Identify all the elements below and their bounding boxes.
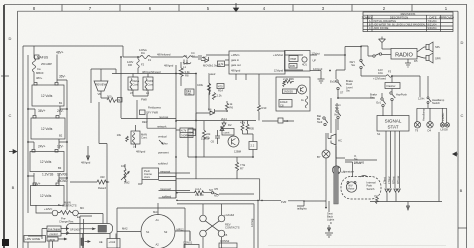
outer right border xyxy=(466,5,468,248)
dcdc regulator box xyxy=(276,77,310,111)
svg-text:STAT: STAT xyxy=(387,125,398,130)
svg-text:rescoss: rescoss xyxy=(159,115,169,119)
transistor Q1 xyxy=(222,129,242,154)
radio feed switch xyxy=(361,46,391,57)
throttle pot resistor 433 xyxy=(70,175,109,217)
svg-text:2.2: 2.2 xyxy=(251,144,255,148)
svg-text:9/30/04: 9/30/04 xyxy=(428,26,437,30)
throttle potentiometer xyxy=(121,164,130,185)
svg-text:7.5k: 7.5k xyxy=(240,163,246,167)
svg-text:DESCRIPTION: DESCRIPTION xyxy=(390,15,408,19)
long vertical bus wires xyxy=(121,57,196,198)
svg-text:7/31/04: 7/31/04 xyxy=(428,19,437,23)
svg-text:comt: comt xyxy=(224,130,230,134)
svg-text:MAFUS: MAFUS xyxy=(37,56,48,60)
speaker SPR xyxy=(417,53,441,63)
svg-text:ADD WATER TNK, B/L LEADS & CAB: ADD WATER TNK, B/L LEADS & CABLE WAND/SE… xyxy=(374,23,426,27)
svg-text:+CA1&6: +CA1&6 xyxy=(224,213,235,217)
ground under radio xyxy=(405,59,418,67)
svg-text:Flasher: Flasher xyxy=(387,84,396,88)
small component A.B xyxy=(262,118,294,123)
dcdc regulator box xyxy=(285,47,362,72)
controller box U1 xyxy=(206,51,303,80)
svg-text:D2: D2 xyxy=(228,123,232,127)
right center arrow xyxy=(453,152,458,156)
small component R13 top xyxy=(258,74,267,121)
top center arrow xyxy=(234,3,239,12)
svg-text:RADIO: RADIO xyxy=(395,52,413,58)
svg-text:Ca: Ca xyxy=(37,67,41,71)
svg-text:2k14: 2k14 xyxy=(221,117,227,121)
svg-text:12V/0B: 12V/0B xyxy=(57,172,67,176)
connector CONS1 xyxy=(183,232,199,248)
svg-text:HazPush: HazPush xyxy=(396,93,407,97)
relay contact NO R5 xyxy=(204,187,219,198)
svg-text:vertical: vertical xyxy=(158,135,167,139)
svg-text:12Vout: 12Vout xyxy=(312,52,321,56)
svg-text:Switch: Switch xyxy=(367,187,375,191)
svg-text:taillights: taillights xyxy=(297,206,307,210)
svg-text:48VconNFused: 48VconNFused xyxy=(142,70,161,74)
svg-text:12 Volts: 12 Volts xyxy=(40,194,52,198)
resistor 1k R6 xyxy=(225,101,233,112)
svg-text:4.2k: 4.2k xyxy=(240,121,246,125)
svg-text:LTfrnt: LTfrnt xyxy=(383,177,387,184)
wire FVR xyxy=(176,194,304,204)
top zone ticks xyxy=(62,5,412,12)
svg-text:48V+: 48V+ xyxy=(36,76,43,80)
svg-text:4.7k: 4.7k xyxy=(181,129,187,133)
diode pair 2k14 xyxy=(220,117,232,131)
svg-text:CONTACTS: CONTACTS xyxy=(62,204,77,208)
scan edge left line xyxy=(3,5,5,248)
svg-text:R14: R14 xyxy=(218,89,223,93)
svg-text:250 AMP: 250 AMP xyxy=(41,62,52,66)
svg-text:470: 470 xyxy=(218,84,223,88)
svg-text:100k: 100k xyxy=(197,83,203,87)
svg-text:4.7k: 4.7k xyxy=(218,62,224,66)
svg-text:RTrear: RTrear xyxy=(396,176,400,184)
svg-text:12Vgnd: 12Vgnd xyxy=(313,67,323,71)
svg-text:D5: D5 xyxy=(414,59,418,63)
svg-text:A A A: A A A xyxy=(195,187,201,191)
svg-text:R6: R6 xyxy=(230,106,234,110)
resistor 7.5k R7 xyxy=(176,157,260,200)
svg-text:Headlamp: Headlamp xyxy=(422,108,426,121)
svg-text:Cont.: Cont. xyxy=(141,136,148,140)
wire lower parallel xyxy=(177,203,254,205)
svg-text:B: B xyxy=(369,23,371,27)
connector CA2 box xyxy=(99,234,120,248)
transformer V1 xyxy=(183,51,205,69)
diode DR 1W5 xyxy=(354,154,365,164)
motor enclosure box xyxy=(117,208,185,248)
svg-text:CONTACTS: CONTACTS xyxy=(225,226,240,230)
svg-text:rrespswt: rrespswt xyxy=(160,169,170,173)
bus wire left xyxy=(27,55,29,213)
svg-text:B3: B3 xyxy=(58,166,62,170)
svg-text:12Vsig: 12Vsig xyxy=(250,218,254,227)
svg-text:D: D xyxy=(461,40,464,45)
svg-text:DR: DR xyxy=(128,63,132,67)
radio U2 xyxy=(391,49,417,60)
node 48V+ xyxy=(56,51,64,83)
svg-text:ctors: ctors xyxy=(144,175,150,179)
capacitor C1 box xyxy=(243,134,258,157)
svg-text:R05: R05 xyxy=(249,127,254,131)
resistor 2.2k R11 xyxy=(212,93,222,100)
fuse F1 xyxy=(140,56,151,59)
battery B3 xyxy=(28,139,67,172)
node 48VconNFused xyxy=(112,64,196,74)
fuse F8 main fuse xyxy=(33,46,53,82)
svg-text:12 Volts: 12 Volts xyxy=(41,127,53,131)
svg-text:S1: S1 xyxy=(146,230,150,234)
svg-text:F3: F3 xyxy=(388,70,392,74)
svg-text:LTrear: LTrear xyxy=(387,176,391,184)
bottom-left black mark xyxy=(2,239,9,246)
svg-text:1500uF: 1500uF xyxy=(201,137,210,141)
svg-text:Sw: Sw xyxy=(351,63,355,67)
svg-text:8/21/04: 8/21/04 xyxy=(428,23,437,27)
svg-text:Cont: Cont xyxy=(133,83,139,87)
svg-text:4D1: 4D1 xyxy=(302,63,307,67)
svg-text:+12Vout: +12Vout xyxy=(273,53,283,57)
brake switch xyxy=(370,93,386,117)
svg-text:15k R9: 15k R9 xyxy=(195,193,204,197)
svg-text:R8: R8 xyxy=(185,74,189,78)
antenna xyxy=(379,37,392,50)
field coil FW8 xyxy=(140,98,162,115)
svg-text:gate out: gate out xyxy=(231,63,241,67)
svg-text:D4: D4 xyxy=(428,128,432,132)
diode pair D3 xyxy=(385,189,400,192)
motor MA1 xyxy=(117,203,190,248)
fuse F2 xyxy=(127,57,145,74)
svg-text:REV: REV xyxy=(367,15,373,19)
relay MAN cont xyxy=(117,125,148,154)
left zone ticks xyxy=(1,75,9,77)
svg-text:7808: 7808 xyxy=(290,57,296,61)
svg-text:control: control xyxy=(50,232,58,236)
svg-text:22k: 22k xyxy=(206,132,211,136)
capacitor C4 xyxy=(199,55,205,60)
svg-text:Sw: Sw xyxy=(346,89,350,93)
wires around relays xyxy=(133,74,148,97)
svg-text:fwr: fwr xyxy=(164,142,168,146)
resistor 100k xyxy=(197,75,224,110)
wires below contacts xyxy=(80,216,92,248)
svg-text:APPROVED: APPROVED xyxy=(439,15,454,19)
taillight branch xyxy=(297,200,326,210)
horn switch xyxy=(335,103,341,130)
svg-text:B1: B1 xyxy=(59,101,63,105)
svg-text:Cont: Cont xyxy=(148,83,154,87)
svg-text:swfleed: swfleed xyxy=(162,194,172,198)
svg-text:FW1: FW1 xyxy=(186,92,192,96)
svg-text:500: 500 xyxy=(107,95,112,99)
svg-text:Cur-Super: Cur-Super xyxy=(48,227,61,231)
reversing contactor K5 xyxy=(200,204,240,248)
svg-text:D: D xyxy=(9,36,12,41)
svg-text:SPL: SPL xyxy=(435,45,441,49)
svg-text:SIGNAL: SIGNAL xyxy=(385,119,402,124)
svg-text:L1: L1 xyxy=(183,65,186,69)
svg-text:MC: MC xyxy=(80,206,84,210)
relay coil KE1a xyxy=(128,77,140,95)
wire network bus xyxy=(147,114,176,128)
horn relay LA xyxy=(317,133,330,208)
shunt bar component xyxy=(81,234,90,248)
svg-text:12Vrt: 12Vrt xyxy=(418,97,425,101)
svg-text:48Vinfused: 48Vinfused xyxy=(157,53,171,57)
svg-text:L4: L4 xyxy=(133,145,136,149)
svg-text:CONS2: CONS2 xyxy=(220,239,230,243)
flasher box xyxy=(385,76,400,92)
bat bk switch xyxy=(317,113,339,126)
svg-text:MA2: MA2 xyxy=(122,227,128,231)
svg-text:T9: T9 xyxy=(415,128,419,132)
svg-text:R05: R05 xyxy=(290,64,295,68)
svg-text:AE: AE xyxy=(99,240,103,244)
svg-text:Ev1: Ev1 xyxy=(376,101,381,105)
capacitor 1500uF C6 xyxy=(201,130,220,144)
resistor block R01 xyxy=(176,128,196,138)
right zone tick xyxy=(458,227,467,229)
svg-text:F1: F1 xyxy=(148,58,152,62)
svg-text:C6: C6 xyxy=(211,140,215,144)
signal stat flasher unit U3 xyxy=(377,116,409,137)
svg-text:C: C xyxy=(9,113,12,118)
svg-text:Vo9: Vo9 xyxy=(334,113,339,117)
svg-text:1.2V/1B: 1.2V/1B xyxy=(42,172,53,176)
svg-text:UF: UF xyxy=(313,59,317,63)
svg-text:+CA2: +CA2 xyxy=(109,240,116,244)
fuse F3 12V 10A xyxy=(361,68,420,97)
faint scan line bottom xyxy=(268,245,446,247)
svg-text:L8 D8: L8 D8 xyxy=(441,128,449,132)
gate network diode D7 xyxy=(201,56,225,77)
wire from horn area down xyxy=(331,98,345,166)
svg-text:D6: D6 xyxy=(208,108,212,112)
svg-text:12Vgnd: 12Vgnd xyxy=(274,69,284,73)
speaker SPL xyxy=(417,42,441,52)
svg-text:pwrssent: pwrssent xyxy=(158,151,169,155)
wires into receiver xyxy=(78,214,107,224)
svg-text:FW1: FW1 xyxy=(148,79,154,83)
svg-text:VV: VV xyxy=(374,194,378,198)
svg-text:+48V HOME: +48V HOME xyxy=(25,237,40,241)
svg-text:2.2k: 2.2k xyxy=(217,94,223,98)
svg-text:R13: R13 xyxy=(262,106,267,110)
tail lamps xyxy=(440,113,449,132)
svg-text:HC: HC xyxy=(338,139,342,143)
lights return bus xyxy=(370,132,442,210)
resistors 4.2k xyxy=(240,121,254,135)
svg-text:12 Volts: 12 Volts xyxy=(41,94,53,98)
svg-text:A2: A2 xyxy=(156,243,160,247)
svg-text:K5: K5 xyxy=(224,233,228,237)
svg-text:1n: 1n xyxy=(192,54,195,58)
svg-text:Fieldcoess: Fieldcoess xyxy=(148,106,162,110)
svg-text:KE1a: KE1a xyxy=(133,79,140,83)
svg-text:R5: R5 xyxy=(215,187,219,191)
resistor 22k R1 xyxy=(202,121,211,157)
relay coil FW1 xyxy=(143,77,154,95)
svg-text:FW8: FW8 xyxy=(141,98,147,102)
svg-text:B: B xyxy=(460,188,463,193)
svg-text:Motor: Motor xyxy=(348,187,355,191)
svg-text:+12SC: +12SC xyxy=(441,113,445,121)
lights box bottom wires xyxy=(345,131,400,188)
svg-text:12 Volts: 12 Volts xyxy=(40,160,52,164)
svg-text:A1: A1 xyxy=(156,218,160,222)
svg-text:DA: DA xyxy=(141,51,145,55)
svg-text:Charge Res: Charge Res xyxy=(59,220,74,224)
svg-text:network: network xyxy=(157,124,167,128)
svg-text:DATE: DATE xyxy=(430,15,437,19)
svg-text:S7: S7 xyxy=(340,91,344,95)
resistor 500 xyxy=(99,95,122,183)
svg-text:D7: D7 xyxy=(203,56,207,60)
svg-text:INITIAL DRAWING: INITIAL DRAWING xyxy=(374,19,397,23)
svg-text:R7: R7 xyxy=(240,167,244,171)
diode D6 xyxy=(196,108,228,116)
svg-text:36V+: 36V+ xyxy=(38,109,46,113)
svg-text:2.2k R06: 2.2k R06 xyxy=(283,77,294,81)
horn trapezoid keyswitch xyxy=(91,69,116,103)
ground symbol near dcdc xyxy=(318,71,325,84)
svg-text:D: D xyxy=(330,221,332,225)
svg-text:48Vgnd: 48Vgnd xyxy=(231,69,241,73)
svg-text:48V+: 48V+ xyxy=(56,51,64,55)
svg-text:REVISIONS: REVISIONS xyxy=(401,12,416,16)
svg-text:R01: R01 xyxy=(187,134,192,138)
svg-text:CONS1: CONS1 xyxy=(183,240,193,244)
svg-text:SP100S: SP100S xyxy=(70,228,80,232)
headlamp lamps xyxy=(414,108,433,132)
key switch S2 xyxy=(350,46,365,76)
relay KE1 FW1 box xyxy=(185,89,194,96)
battery right bus wire xyxy=(57,80,67,205)
svg-text:B: B xyxy=(12,185,15,190)
svg-text:F2: F2 xyxy=(141,63,145,67)
svg-text:FVR: FVR xyxy=(281,200,286,204)
pwr connectors box xyxy=(142,168,159,180)
svg-text:rrespsw2: rrespsw2 xyxy=(160,187,171,191)
battery B4 xyxy=(28,172,68,205)
svg-text:gate in: gate in xyxy=(231,58,240,62)
svg-text:Sw: Sw xyxy=(370,96,374,100)
throttle receiver box xyxy=(67,224,113,234)
connector CONS2 xyxy=(219,239,237,248)
battery B1 xyxy=(32,75,66,107)
+48V HOME box xyxy=(24,236,46,243)
svg-text:ADD DIODE: ADD DIODE xyxy=(374,26,389,30)
svg-text:A: A xyxy=(369,19,371,23)
svg-text:V1: V1 xyxy=(184,54,188,58)
seat back lights xyxy=(325,201,335,237)
svg-text:camp: camp xyxy=(49,238,56,241)
svg-text:REVIEW: REVIEW xyxy=(96,83,107,87)
svg-text:QFY FW8: QFY FW8 xyxy=(146,111,158,115)
svg-text:Sw9: Sw9 xyxy=(317,120,323,124)
wire bus y121 xyxy=(176,113,256,121)
haz push switch xyxy=(390,92,408,116)
svg-text:36V-: 36V- xyxy=(59,75,66,79)
battery compartment enclosure xyxy=(23,46,123,248)
svg-text:12BM: 12BM xyxy=(234,150,242,154)
bus y157 xyxy=(188,136,253,158)
wiper motor assembly M2 xyxy=(334,161,381,204)
GA1 box xyxy=(188,129,196,136)
svg-text:Retard: Retard xyxy=(98,186,107,190)
net labels center xyxy=(142,115,169,166)
svg-text:2N3055: 2N3055 xyxy=(284,90,294,94)
motor circle M xyxy=(332,146,346,174)
svg-text:433: 433 xyxy=(100,175,105,179)
svg-text:S2: S2 xyxy=(164,230,168,234)
headlamp switch xyxy=(417,76,447,123)
brake fluid level switch S7 xyxy=(330,70,375,98)
svg-text:C: C xyxy=(369,26,371,30)
svg-text:48Vgnd: 48Vgnd xyxy=(136,150,146,154)
svg-text:C8: C8 xyxy=(280,103,284,107)
double vertical wires 12Vsig xyxy=(250,200,258,248)
svg-text:BY: BY xyxy=(317,155,321,159)
svg-text:SPR: SPR xyxy=(435,57,441,61)
resistor 3.3k R8 xyxy=(179,62,190,86)
svg-text:48Vgnd: 48Vgnd xyxy=(81,161,91,165)
svg-text:softthruf: softthruf xyxy=(158,162,168,166)
left center arrow xyxy=(9,150,17,154)
svg-text:N: N xyxy=(118,98,120,102)
svg-text:48Vgnd: 48Vgnd xyxy=(164,64,174,68)
horn HC xyxy=(328,133,342,145)
top bus wire to controller xyxy=(123,46,183,62)
cur-super control boxes xyxy=(28,226,69,248)
revision table xyxy=(362,12,454,32)
svg-text:3.3k: 3.3k xyxy=(185,70,191,74)
outer top border xyxy=(4,4,467,6)
svg-text:a 1V3: a 1V3 xyxy=(354,161,362,165)
svg-text:10k: 10k xyxy=(117,133,122,137)
wires from connector box xyxy=(138,169,190,198)
48Vgnd arrow node xyxy=(81,146,91,165)
svg-text:+12VC: +12VC xyxy=(44,207,52,211)
svg-text:Switch: Switch xyxy=(432,101,440,105)
svg-text:+48Vin: +48Vin xyxy=(231,53,240,57)
svg-text:+12Vfused: +12Vfused xyxy=(373,77,386,81)
svg-text:S1: S1 xyxy=(377,132,381,136)
svg-text:MBUF: MBUF xyxy=(36,71,44,75)
svg-text:24V+: 24V+ xyxy=(38,145,46,149)
battery B2 xyxy=(28,106,67,139)
wire F2 branch xyxy=(115,69,117,74)
svg-text:B2: B2 xyxy=(59,134,63,138)
resistor 15k R9 xyxy=(176,187,204,197)
svg-text:Lights: Lights xyxy=(327,218,335,222)
main contacts K1 xyxy=(36,201,84,224)
svg-text:12V-: 12V- xyxy=(57,145,64,149)
svg-text:RTfrnt: RTfrnt xyxy=(392,176,396,184)
svg-text:C: C xyxy=(461,113,464,118)
svg-text:10A: 10A xyxy=(378,71,383,75)
